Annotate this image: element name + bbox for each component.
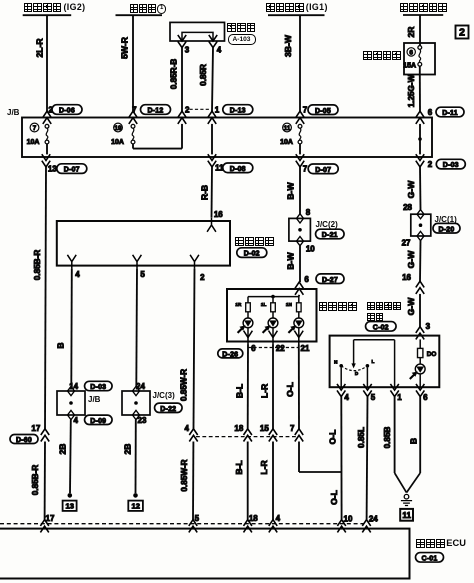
- svg-text:13: 13: [65, 502, 73, 511]
- svg-text:0.85B-R: 0.85B-R: [31, 465, 40, 496]
- svg-text:14: 14: [69, 382, 78, 391]
- svg-text:0.85B: 0.85B: [383, 426, 392, 448]
- svg-text:5: 5: [371, 393, 376, 402]
- svg-text:4: 4: [75, 270, 80, 279]
- svg-text:DO: DO: [427, 351, 437, 358]
- svg-text:O-L: O-L: [329, 490, 339, 505]
- svg-text:O-L: O-L: [328, 430, 338, 445]
- svg-text:2B: 2B: [58, 444, 68, 455]
- svg-text:D-22: D-22: [160, 406, 176, 413]
- svg-text:B-L: B-L: [235, 384, 245, 398]
- svg-text:D-07: D-07: [315, 167, 331, 174]
- svg-text:O-L: O-L: [285, 382, 295, 397]
- svg-text:0.85W-R: 0.85W-R: [180, 459, 189, 491]
- svg-text:D: D: [355, 371, 359, 376]
- svg-text:16: 16: [402, 273, 411, 282]
- svg-text:L: L: [372, 359, 375, 364]
- svg-text:4: 4: [344, 393, 349, 402]
- svg-text:6: 6: [251, 344, 256, 353]
- svg-text:6: 6: [423, 393, 428, 402]
- svg-text:28: 28: [403, 203, 412, 212]
- svg-text:13: 13: [48, 164, 57, 173]
- svg-text:4: 4: [217, 46, 222, 55]
- svg-text:10A: 10A: [280, 139, 293, 146]
- svg-text:1L: 1L: [261, 302, 267, 307]
- svg-text:2: 2: [200, 273, 205, 282]
- svg-text:18: 18: [234, 424, 243, 433]
- svg-text:5: 5: [195, 514, 200, 523]
- svg-text:4: 4: [185, 424, 190, 433]
- svg-text:1N: 1N: [286, 302, 293, 307]
- svg-text:B: B: [409, 438, 419, 444]
- svg-text:D-05: D-05: [315, 108, 331, 115]
- svg-text:10: 10: [344, 514, 353, 523]
- svg-text:23: 23: [138, 416, 147, 425]
- svg-text:4: 4: [276, 514, 281, 523]
- svg-text:2: 2: [459, 26, 465, 38]
- svg-text:L-R: L-R: [260, 383, 270, 398]
- svg-text:D-27: D-27: [322, 277, 338, 284]
- svg-text:4: 4: [73, 416, 78, 425]
- svg-text:1.25G-W: 1.25G-W: [407, 74, 416, 107]
- svg-text:7: 7: [303, 106, 308, 115]
- svg-text:B: B: [56, 342, 66, 348]
- svg-text:B-W: B-W: [286, 182, 296, 200]
- svg-text:18: 18: [249, 514, 258, 523]
- svg-text:D-06: D-06: [59, 108, 75, 115]
- svg-text:D-12: D-12: [148, 108, 164, 115]
- svg-text:7: 7: [33, 125, 37, 132]
- svg-text:B-W: B-W: [286, 252, 296, 270]
- svg-text:0.85L: 0.85L: [357, 427, 366, 448]
- svg-text:5: 5: [140, 270, 145, 279]
- svg-text:10A: 10A: [111, 139, 124, 146]
- svg-text:2: 2: [428, 160, 433, 169]
- svg-text:3B-W: 3B-W: [283, 34, 293, 57]
- svg-text:7: 7: [132, 105, 137, 114]
- svg-text:G-W: G-W: [406, 180, 416, 199]
- svg-text:B-L: B-L: [234, 460, 244, 474]
- svg-text:22: 22: [276, 344, 285, 353]
- svg-text:D-26: D-26: [222, 351, 238, 358]
- svg-text:21: 21: [301, 344, 310, 353]
- svg-text:16: 16: [214, 210, 223, 219]
- svg-text:D-60: D-60: [16, 437, 32, 444]
- svg-text:10: 10: [306, 244, 315, 253]
- svg-text:3: 3: [185, 46, 190, 55]
- svg-text:1R: 1R: [235, 302, 242, 307]
- svg-text:C-01: C-01: [422, 555, 438, 562]
- svg-text:2R: 2R: [406, 26, 416, 38]
- svg-text:D-11: D-11: [442, 110, 458, 117]
- svg-text:L-R: L-R: [259, 460, 269, 475]
- svg-text:D-20: D-20: [439, 226, 455, 233]
- svg-text:27: 27: [402, 239, 411, 248]
- svg-text:15: 15: [260, 424, 269, 433]
- svg-text:24: 24: [136, 382, 145, 391]
- svg-text:7: 7: [290, 424, 295, 433]
- svg-text:24: 24: [369, 514, 378, 523]
- svg-text:G-W: G-W: [406, 297, 416, 316]
- svg-text:C-02: C-02: [373, 324, 389, 331]
- svg-text:N: N: [334, 359, 338, 364]
- svg-text:2B: 2B: [123, 444, 133, 455]
- svg-text:6: 6: [428, 108, 433, 117]
- svg-text:D-13: D-13: [230, 108, 246, 115]
- svg-text:D-03: D-03: [90, 384, 106, 391]
- svg-text:D-09: D-09: [90, 418, 106, 425]
- svg-text:11: 11: [284, 125, 291, 132]
- svg-text:5W-R: 5W-R: [119, 36, 129, 59]
- svg-text:17: 17: [31, 424, 40, 433]
- svg-text:6: 6: [409, 49, 413, 56]
- svg-text:2: 2: [185, 105, 190, 114]
- svg-text:D-03: D-03: [443, 162, 459, 169]
- svg-text:7: 7: [303, 165, 308, 174]
- svg-text:D-08: D-08: [230, 166, 246, 173]
- svg-text:12: 12: [131, 502, 139, 511]
- svg-text:0.85R-B: 0.85R-B: [169, 59, 178, 90]
- svg-text:17: 17: [46, 514, 55, 523]
- svg-text:D-02: D-02: [244, 251, 260, 258]
- svg-text:D-07: D-07: [64, 167, 80, 174]
- svg-text:0.85W-R: 0.85W-R: [179, 369, 188, 401]
- svg-text:2L-R: 2L-R: [34, 38, 44, 58]
- svg-text:11: 11: [402, 511, 411, 520]
- svg-text:1: 1: [215, 105, 220, 114]
- svg-text:19: 19: [115, 125, 122, 132]
- svg-text:0.85R: 0.85R: [199, 64, 208, 86]
- svg-text:G-W: G-W: [406, 250, 416, 269]
- svg-text:3: 3: [426, 322, 431, 331]
- svg-text:6: 6: [304, 275, 309, 284]
- svg-text:D-21: D-21: [322, 232, 338, 239]
- svg-text:10A: 10A: [27, 139, 40, 146]
- svg-text:8: 8: [306, 208, 311, 217]
- svg-text:1: 1: [397, 393, 402, 402]
- svg-text:0.85B-R: 0.85B-R: [33, 250, 42, 281]
- svg-text:15A: 15A: [403, 62, 416, 69]
- svg-text:R-B: R-B: [199, 185, 209, 200]
